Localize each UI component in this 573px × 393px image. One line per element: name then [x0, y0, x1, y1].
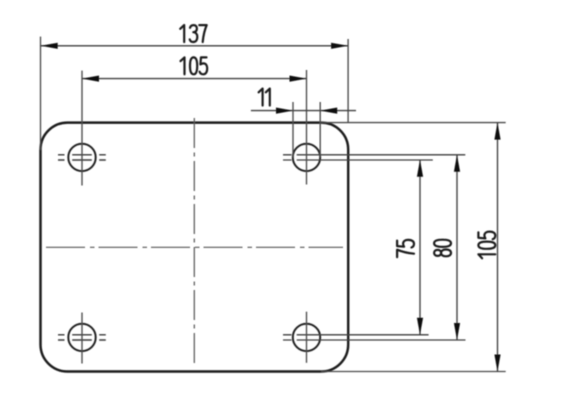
arrow 75 down	[417, 318, 423, 335]
hole BR centerlines extended as extension lines for 75 (upper) and 80 (lower)	[283, 335, 466, 340]
dimension line 11	[251, 110, 356, 112]
arrow 105 right	[290, 76, 307, 82]
label 105 (plate height)	[478, 232, 495, 259]
vertical centerline hole BL	[81, 313, 83, 364]
extension line bottom for right 105 dim (continues plate bottom edge)	[321, 371, 506, 373]
arrow 80 up	[454, 155, 460, 172]
plate outline	[41, 123, 349, 372]
label 75	[397, 240, 414, 257]
arrow 137 right	[331, 43, 348, 49]
hole top-right	[293, 144, 320, 171]
dimension line 75 vertical	[419, 160, 421, 335]
plate horizontal centerline (dash-dot)	[46, 246, 343, 248]
extension line right for 137 dim	[347, 39, 349, 123]
arrow 105R down	[494, 355, 500, 372]
dimension line 105 right vertical	[497, 123, 499, 372]
vertical centerline hole BR	[306, 312, 308, 363]
hole TL horizontal centerlines (75/80 hole patterns)	[58, 155, 106, 160]
extension (tangent) line 11 left	[292, 102, 294, 157]
dimension line 80 vertical	[456, 155, 458, 340]
label 137	[180, 25, 207, 42]
arrow 11 pointing left	[320, 108, 337, 114]
arrow 80 down	[454, 323, 460, 340]
label 80	[434, 240, 451, 257]
plate vertical centerline (dash-dot)	[193, 118, 195, 366]
hole BL horizontal centerlines	[58, 335, 106, 340]
arrow 105R up	[494, 123, 500, 140]
arrow 75 up	[417, 160, 423, 177]
arrow 11 pointing right	[276, 108, 293, 114]
arrow 137 left	[41, 43, 58, 49]
extension (tangent) line 11 right	[319, 102, 321, 157]
dimension line 137	[41, 45, 348, 47]
hole bottom-left	[68, 324, 95, 351]
hole top-left	[68, 144, 95, 171]
hole TR centerlines extended as extension lines for 80 (upper) and 75 (lower)	[283, 155, 465, 160]
vertical centerline / extension through hole TL	[81, 71, 83, 186]
dimension line 105 top	[82, 78, 307, 80]
label 105 (hole spacing)	[181, 57, 208, 74]
hole bottom-right	[293, 324, 320, 351]
extension line top for right 105 dim (continues plate top edge)	[321, 122, 506, 124]
vertical centerline / extension through hole TR	[306, 70, 308, 185]
label 11 (hole diameter)	[259, 89, 270, 106]
extension line left for 137 dim	[40, 37, 42, 150]
arrow 105 left	[82, 76, 99, 82]
